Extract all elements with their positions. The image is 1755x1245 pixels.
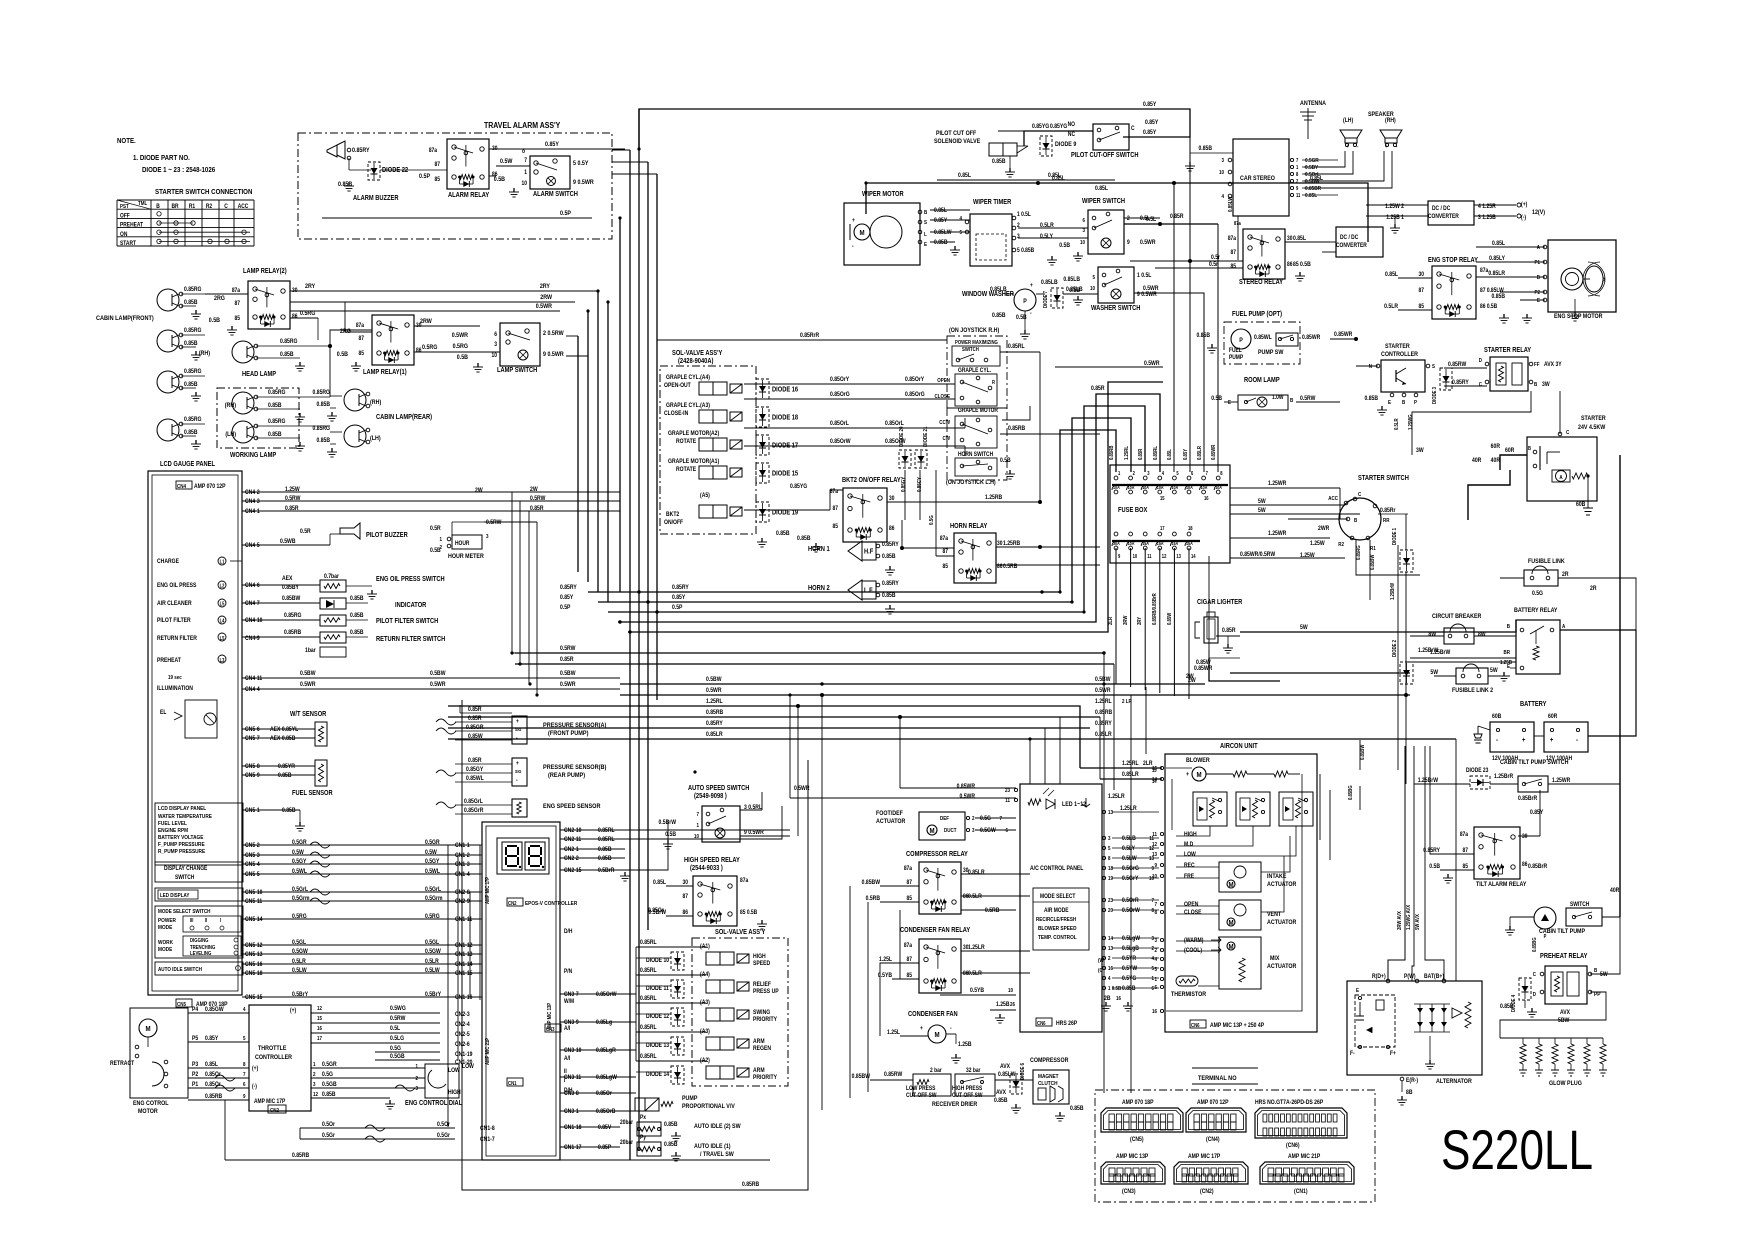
svg-text:0.85WR: 0.85WR bbox=[1334, 332, 1352, 339]
svg-text:DISPLAY CHANGE: DISPLAY CHANGE bbox=[164, 866, 208, 873]
svg-text:COMPRESSOR RELAY: COMPRESSOR RELAY bbox=[906, 851, 969, 859]
svg-text:85: 85 bbox=[1463, 864, 1468, 871]
cn6 hrs label bbox=[1036, 1018, 1052, 1026]
svg-text:2LR: 2LR bbox=[1143, 761, 1153, 768]
svg-text:STEREO RELAY: STEREO RELAY bbox=[1239, 279, 1284, 287]
diode 18 bbox=[756, 407, 769, 427]
cabin lamp rear rh bbox=[344, 389, 366, 411]
mode select switch bbox=[155, 906, 243, 958]
eng control dial bbox=[425, 1064, 459, 1098]
mode select box bbox=[1033, 888, 1089, 950]
svg-text:P2: P2 bbox=[1534, 290, 1540, 297]
svg-text:0.5B: 0.5B bbox=[1429, 864, 1440, 871]
svg-text:0.85B: 0.85B bbox=[994, 1098, 1008, 1105]
connector CN4 label bbox=[176, 481, 192, 489]
svg-text:(+): (+) bbox=[290, 1008, 296, 1015]
svg-text:0.5Gr: 0.5Gr bbox=[437, 1133, 451, 1140]
washer 0.85LB wire bbox=[1036, 293, 1045, 295]
svg-text:M.D: M.D bbox=[1184, 842, 1193, 849]
svg-text:0.5BrR: 0.5BrR bbox=[598, 868, 614, 875]
svg-text:7: 7 bbox=[999, 816, 1002, 823]
svg-text:0.85B: 0.85B bbox=[882, 593, 896, 600]
svg-text:0.85RY: 0.85RY bbox=[1452, 380, 1469, 387]
svg-text:0.5GB: 0.5GB bbox=[322, 1082, 337, 1089]
svg-text:1.25L: 1.25L bbox=[887, 1030, 900, 1037]
svg-text:CCW: CCW bbox=[939, 420, 950, 427]
svg-text:16: 16 bbox=[317, 1026, 322, 1033]
junction dots extra bbox=[637, 147, 640, 150]
svg-text:0.85RG: 0.85RG bbox=[268, 419, 286, 426]
svg-text:0.5B: 0.5B bbox=[1211, 396, 1222, 403]
svg-text:DIODE 23: DIODE 23 bbox=[1466, 768, 1488, 775]
svg-text:0.5B: 0.5B bbox=[1059, 243, 1070, 250]
svg-text:0.85RY: 0.85RY bbox=[1423, 848, 1440, 855]
vert 657 bbox=[656, 174, 658, 700]
svg-text:HRS NO.GT7A-26PD-DS 26P: HRS NO.GT7A-26PD-DS 26P bbox=[1255, 1100, 1323, 1107]
wire battery relay to battery bbox=[1588, 630, 1636, 736]
svg-text:CN1-18: CN1-18 bbox=[564, 1125, 581, 1132]
vert 648 bbox=[647, 162, 649, 930]
svg-text:(LH): (LH) bbox=[225, 432, 236, 439]
svg-text:0.85OrY: 0.85OrY bbox=[905, 377, 924, 384]
svg-text:CN5-4: CN5-4 bbox=[245, 862, 260, 869]
svg-text:87a: 87a bbox=[740, 878, 749, 885]
svg-text:15: 15 bbox=[1160, 496, 1165, 501]
fuse bottom wire 10 bbox=[1130, 548, 1132, 687]
svg-text:14: 14 bbox=[1108, 936, 1113, 943]
svg-text:0.7bar: 0.7bar bbox=[324, 574, 340, 581]
svg-text:0.5Or: 0.5Or bbox=[322, 1122, 336, 1129]
svg-text:ON/OFF: ON/OFF bbox=[664, 520, 684, 527]
aircon internal wires bbox=[1176, 826, 1210, 836]
seven segment display bbox=[497, 838, 549, 874]
svg-text:10: 10 bbox=[1219, 170, 1224, 177]
svg-text:0.5WR: 0.5WR bbox=[959, 794, 975, 801]
svg-text:ROTATE: ROTATE bbox=[676, 467, 696, 474]
glow plug resistor 3 bbox=[1554, 1038, 1556, 1044]
verticals 1.25W starter sw bbox=[1339, 488, 1341, 519]
travel alarm assembly box bbox=[298, 133, 612, 239]
svg-text:1.25BrR: 1.25BrR bbox=[1494, 774, 1513, 781]
svg-text:A/I: A/I bbox=[564, 1056, 571, 1063]
svg-text:DIODE 12: DIODE 12 bbox=[646, 1014, 669, 1021]
svg-text:2: 2 bbox=[1127, 216, 1130, 223]
svg-text:0.85R: 0.85R bbox=[285, 506, 299, 513]
svg-text:0.85RG: 0.85RG bbox=[284, 613, 302, 620]
svg-text:0.85BG: 0.85BG bbox=[1532, 937, 1539, 952]
starter controller feeds bbox=[1356, 365, 1378, 367]
svg-text:ILLUMINATION: ILLUMINATION bbox=[157, 686, 193, 693]
svg-text:THERMISTOR: THERMISTOR bbox=[1171, 992, 1207, 999]
svg-text:HEAD LAMP: HEAD LAMP bbox=[242, 371, 277, 379]
svg-text:0.5WL: 0.5WL bbox=[425, 869, 440, 876]
svg-text:30: 30 bbox=[997, 541, 1002, 548]
svg-text:0.5WR: 0.5WR bbox=[794, 786, 810, 793]
wire 0.85RB graple bbox=[1000, 433, 1100, 435]
svg-text:(CN3): (CN3) bbox=[1122, 1189, 1136, 1196]
svg-text:2: 2 bbox=[972, 816, 975, 823]
wire 0.85YG pilot bbox=[1024, 131, 1093, 146]
svg-text:2RY: 2RY bbox=[540, 284, 550, 291]
svg-text:3: 3 bbox=[415, 1086, 418, 1093]
eng stop motor bottom gnd bbox=[1574, 299, 1576, 312]
svg-text:0.5G: 0.5G bbox=[929, 515, 936, 525]
svg-text:0.5RG: 0.5RG bbox=[300, 311, 316, 318]
svg-text:DIODE 18: DIODE 18 bbox=[772, 414, 799, 422]
svg-text:85: 85 bbox=[235, 316, 240, 323]
svg-text:NC: NC bbox=[1068, 132, 1075, 139]
svg-text:8: 8 bbox=[243, 1062, 246, 1069]
svg-text:0.85BY: 0.85BY bbox=[282, 585, 299, 592]
svg-text:4: 4 bbox=[1108, 976, 1111, 983]
svg-text:1.25RB: 1.25RB bbox=[1003, 541, 1020, 548]
svg-text:86: 86 bbox=[683, 910, 688, 917]
svg-text:0.85RY: 0.85RY bbox=[560, 585, 577, 592]
svg-text:0.85B: 0.85B bbox=[268, 432, 282, 439]
svg-text:P1: P1 bbox=[1534, 260, 1540, 267]
svg-text:COMPRESSOR: COMPRESSOR bbox=[1030, 1058, 1069, 1065]
svg-text:HORN 1: HORN 1 bbox=[808, 546, 830, 554]
svg-text:0.5WR: 0.5WR bbox=[300, 682, 316, 689]
svg-text:(CN5): (CN5) bbox=[1130, 1137, 1144, 1144]
svg-text:SOL-VALVE ASS'Y: SOL-VALVE ASS'Y bbox=[715, 929, 766, 937]
svg-text:ENGINE RPM: ENGINE RPM bbox=[158, 828, 189, 835]
working lamp rh bbox=[232, 392, 254, 414]
svg-text:0.5WR: 0.5WR bbox=[1095, 688, 1111, 695]
svg-text:M: M bbox=[1228, 944, 1233, 952]
svg-text:0.85L: 0.85L bbox=[1167, 449, 1174, 460]
svg-text:1.25RL: 1.25RL bbox=[1124, 446, 1131, 460]
svg-text:POWER: POWER bbox=[158, 918, 176, 925]
svg-text:9: 9 bbox=[1296, 186, 1299, 191]
svg-text:2: 2 bbox=[1154, 948, 1157, 955]
svg-text:0.85RW: 0.85RW bbox=[884, 1072, 903, 1079]
alarm buzzer bbox=[327, 141, 345, 159]
svg-text:1: 1 bbox=[415, 1064, 418, 1071]
svg-text:60R: 60R bbox=[1505, 448, 1514, 455]
0.85RB bottom wire bbox=[224, 1100, 226, 1160]
svg-text:0.85RL: 0.85RL bbox=[1008, 344, 1025, 351]
svg-text:(C: (C bbox=[1098, 968, 1103, 975]
aircon pins left bbox=[1160, 766, 1163, 769]
svg-text:WATER TEMPERATURE: WATER TEMPERATURE bbox=[158, 814, 212, 821]
svg-text:CN2: CN2 bbox=[508, 901, 517, 908]
svg-text:0.85Y: 0.85Y bbox=[205, 1036, 218, 1043]
svg-text:1: 1 bbox=[696, 823, 699, 830]
svg-text:0.85RY: 0.85RY bbox=[882, 581, 899, 588]
svg-text:5W: 5W bbox=[1258, 499, 1266, 506]
svg-text:BR: BR bbox=[1503, 650, 1510, 657]
svg-text:1.25LR: 1.25LR bbox=[1120, 806, 1137, 813]
svg-text:PREHEAT: PREHEAT bbox=[157, 658, 181, 665]
svg-text:DIODE 11: DIODE 11 bbox=[646, 986, 669, 993]
left vertical bundle from alarm bbox=[612, 149, 630, 151]
svg-text:0.5WR: 0.5WR bbox=[452, 333, 469, 340]
svg-text:LAMP RELAY(1): LAMP RELAY(1) bbox=[363, 369, 407, 377]
svg-text:R1: R1 bbox=[189, 204, 195, 211]
svg-text:CONVERTER: CONVERTER bbox=[1428, 214, 1459, 221]
svg-text:0.85RB: 0.85RB bbox=[1109, 445, 1116, 460]
svg-text:M: M bbox=[934, 1032, 939, 1040]
svg-text:FUSIBLE LINK: FUSIBLE LINK bbox=[1528, 559, 1565, 566]
svg-text:+: + bbox=[516, 761, 519, 768]
svg-text:5: 5 bbox=[1092, 275, 1095, 282]
svg-text:0.85OrW: 0.85OrW bbox=[830, 439, 851, 446]
wire 0.5WR lamp bbox=[290, 310, 560, 312]
svg-text:30: 30 bbox=[1419, 272, 1424, 279]
svg-text:PILOT FILTER SWITCH: PILOT FILTER SWITCH bbox=[376, 618, 439, 626]
svg-text:PREHEAT RELAY: PREHEAT RELAY bbox=[1540, 953, 1588, 961]
a/c panel top feed verticals bbox=[1029, 739, 1031, 784]
svg-text:0.5GL: 0.5GL bbox=[425, 940, 440, 947]
svg-text:DIODE 20: DIODE 20 bbox=[899, 426, 906, 447]
svg-text:0.85B: 0.85B bbox=[184, 341, 198, 348]
svg-text:PRIORITY: PRIORITY bbox=[753, 1017, 777, 1024]
svg-text:DIODE 3: DIODE 3 bbox=[1432, 387, 1439, 404]
svg-text:CN1: CN1 bbox=[508, 1081, 517, 1088]
svg-text:-: - bbox=[852, 244, 854, 251]
svg-text:0.5P: 0.5P bbox=[560, 211, 571, 218]
svg-text:11: 11 bbox=[1005, 798, 1010, 805]
svg-text:CN5-18: CN5-18 bbox=[245, 971, 262, 978]
svg-text:0.85L: 0.85L bbox=[1052, 176, 1065, 183]
svg-text:0.85RG: 0.85RG bbox=[313, 426, 331, 433]
svg-text:CN1-20: CN1-20 bbox=[455, 1060, 472, 1067]
cabin lamp rear lh bbox=[344, 425, 366, 447]
graple wires vertical 965 bbox=[964, 418, 966, 428]
svg-text:WIPER TIMER: WIPER TIMER bbox=[973, 199, 1012, 207]
svg-text:(2428-9040A): (2428-9040A) bbox=[678, 358, 713, 366]
wire 0.85WR from bus to ac bbox=[899, 717, 901, 788]
svg-text:SWITCH: SWITCH bbox=[1570, 902, 1589, 909]
svg-text:R1: R1 bbox=[1370, 546, 1376, 553]
svg-text:(-): (-) bbox=[252, 1084, 257, 1091]
svg-text:ANTENNA: ANTENNA bbox=[1300, 101, 1327, 108]
vert 600 2RY bbox=[597, 291, 599, 592]
svg-text:26: 26 bbox=[1010, 1002, 1015, 1009]
svg-text:1.25WG AVX: 1.25WG AVX bbox=[1406, 904, 1413, 930]
svg-text:7: 7 bbox=[1151, 898, 1154, 905]
svg-text:3: 3 bbox=[1151, 936, 1154, 943]
svg-text:HIGH: HIGH bbox=[448, 1090, 461, 1097]
svg-text:0.85YG: 0.85YG bbox=[1032, 124, 1050, 131]
svg-text:CONDENSER FAN RELAY: CONDENSER FAN RELAY bbox=[900, 927, 971, 935]
svg-text:AVX: AVX bbox=[1560, 1010, 1570, 1017]
svg-text:FUEL PUMP (OPT): FUEL PUMP (OPT) bbox=[1232, 311, 1282, 319]
svg-text:0.5G: 0.5G bbox=[390, 1046, 402, 1053]
svg-text:CLOSE: CLOSE bbox=[935, 394, 951, 401]
svg-text:AMP MIC 21P: AMP MIC 21P bbox=[1288, 1154, 1321, 1161]
svg-text:0.85B: 0.85B bbox=[1070, 1106, 1084, 1113]
svg-text:A/I: A/I bbox=[564, 1026, 571, 1033]
svg-text:0.5WR: 0.5WR bbox=[560, 682, 576, 689]
svg-text:START: START bbox=[120, 241, 137, 248]
svg-text:8B: 8B bbox=[1406, 1090, 1412, 1097]
svg-text:18: 18 bbox=[1188, 526, 1193, 531]
vert 620 0.5P bbox=[619, 218, 621, 592]
svg-text:0.85BW: 0.85BW bbox=[282, 596, 301, 603]
svg-text:0.85B: 0.85B bbox=[184, 300, 198, 307]
svg-text:4: 4 bbox=[959, 216, 962, 223]
svg-text:5 0.5Y: 5 0.5Y bbox=[573, 161, 588, 168]
svg-text:1 0.5L: 1 0.5L bbox=[1137, 273, 1152, 280]
svg-text:TRENCHING: TRENCHING bbox=[190, 945, 216, 952]
svg-text:0.85OrL: 0.85OrL bbox=[885, 421, 904, 428]
svg-text:HIGH PRESS: HIGH PRESS bbox=[952, 1086, 983, 1093]
svg-text:S220LL: S220LL bbox=[1441, 1118, 1593, 1181]
svg-text:DC / DC: DC / DC bbox=[1432, 206, 1450, 213]
svg-text:0.5G: 0.5G bbox=[1532, 591, 1544, 598]
svg-text:85: 85 bbox=[1231, 264, 1236, 271]
svg-text:0.85R: 0.85R bbox=[560, 657, 574, 664]
svg-text:F-: F- bbox=[1350, 1051, 1355, 1058]
svg-text:0.85V: 0.85V bbox=[598, 1125, 611, 1132]
svg-text:60R: 60R bbox=[1491, 444, 1500, 451]
wire bottom 0.5WR to autospeed bbox=[789, 695, 791, 798]
svg-text:2R: 2R bbox=[1562, 572, 1568, 579]
svg-text:D: D bbox=[1533, 992, 1537, 999]
svg-text:PUMP: PUMP bbox=[682, 1096, 697, 1103]
ac left pins bbox=[1014, 788, 1017, 791]
svg-text:5: 5 bbox=[959, 230, 962, 237]
svg-text:0.85Lg: 0.85Lg bbox=[596, 1020, 613, 1027]
svg-text:0.5W: 0.5W bbox=[500, 159, 513, 166]
svg-text:AUTO SPEED SWITCH: AUTO SPEED SWITCH bbox=[688, 785, 750, 793]
svg-text:OPEN-OUT: OPEN-OUT bbox=[664, 383, 691, 390]
svg-text:1.25WR: 1.25WR bbox=[1552, 778, 1570, 785]
svg-text:4: 4 bbox=[243, 1007, 246, 1014]
svg-text:1.0W: 1.0W bbox=[1272, 395, 1284, 402]
svg-text:0.85L: 0.85L bbox=[958, 173, 971, 180]
svg-text:(-): (-) bbox=[1521, 215, 1526, 222]
svg-text:0.85B: 0.85B bbox=[934, 240, 948, 247]
svg-text:ENG STOP MOTOR: ENG STOP MOTOR bbox=[1554, 314, 1603, 321]
svg-text:0.85Y: 0.85Y bbox=[1143, 130, 1156, 137]
svg-text:AIRCON UNIT: AIRCON UNIT bbox=[1220, 743, 1258, 751]
svg-text:ACTUATOR: ACTUATOR bbox=[1267, 964, 1297, 971]
svg-text:40R: 40R bbox=[1610, 888, 1619, 895]
svg-text:8: 8 bbox=[1151, 908, 1154, 915]
svg-text:1: 1 bbox=[313, 1062, 316, 1069]
fuse feeder pin8 bbox=[1217, 224, 1219, 472]
wire starter switch feeds bbox=[1356, 540, 1420, 575]
svg-text:11: 11 bbox=[1147, 554, 1152, 559]
sol valve 0.85RL vertical bbox=[635, 947, 637, 1061]
svg-text:0.85L: 0.85L bbox=[653, 880, 666, 887]
svg-text:0.5YW: 0.5YW bbox=[1122, 966, 1138, 973]
svg-text:NOTE.: NOTE. bbox=[117, 138, 136, 146]
svg-text:0.5B: 0.5B bbox=[494, 177, 506, 184]
svg-text:0.85BW: 0.85BW bbox=[862, 880, 881, 887]
svg-text:CN3-7: CN3-7 bbox=[564, 992, 579, 999]
svg-text:CN5-10: CN5-10 bbox=[245, 890, 262, 897]
svg-text:13: 13 bbox=[1176, 554, 1181, 559]
svg-text:1.25RL: 1.25RL bbox=[706, 699, 723, 706]
svg-text:0.85B: 0.85B bbox=[1122, 986, 1136, 993]
svg-text:0.5LR: 0.5LR bbox=[968, 971, 982, 978]
washer to switch bbox=[1063, 293, 1098, 295]
svg-text:2 0.5RW: 2 0.5RW bbox=[543, 331, 564, 338]
svg-text:60B: 60B bbox=[1492, 714, 1501, 721]
svg-text:DEF: DEF bbox=[940, 816, 949, 823]
svg-text:CN3-9: CN3-9 bbox=[564, 1020, 579, 1027]
svg-text:23: 23 bbox=[1108, 898, 1113, 905]
cabin lamp front 4 bbox=[157, 419, 179, 441]
ac right pin rows bbox=[1102, 836, 1105, 839]
svg-text:0.85RB: 0.85RB bbox=[292, 1153, 309, 1160]
svg-text:0.85B: 0.85B bbox=[338, 182, 353, 189]
svg-text:HORN 2: HORN 2 bbox=[808, 585, 830, 593]
svg-text:87: 87 bbox=[943, 549, 948, 556]
svg-text:2RY: 2RY bbox=[1137, 616, 1144, 625]
svg-text:5: 5 bbox=[1151, 966, 1154, 973]
vert 639 long bbox=[638, 109, 640, 1150]
svg-text:CN2-15: CN2-15 bbox=[564, 868, 581, 875]
working lamp wires bbox=[329, 346, 331, 397]
svg-text:MODE SELECT: MODE SELECT bbox=[1040, 894, 1076, 901]
svg-text:AVX: AVX bbox=[1000, 1064, 1010, 1071]
wire diode1 vert bbox=[1405, 514, 1407, 550]
svg-text:ENG COTROL: ENG COTROL bbox=[133, 1101, 169, 1108]
wire 0.5P bottom bbox=[322, 217, 592, 219]
svg-text:L5: L5 bbox=[220, 601, 225, 606]
svg-text:LAMP RELAY(2): LAMP RELAY(2) bbox=[243, 268, 287, 276]
svg-text:BATTERY VOLTAGE: BATTERY VOLTAGE bbox=[158, 835, 204, 842]
alternator stator bbox=[1452, 1008, 1462, 1018]
svg-text:0.5LB: 0.5LB bbox=[1122, 836, 1136, 843]
svg-text:-: - bbox=[1496, 737, 1498, 745]
svg-text:10: 10 bbox=[492, 353, 497, 360]
svg-text:B: B bbox=[1534, 382, 1538, 389]
svg-text:3: 3 bbox=[1082, 228, 1085, 235]
svg-text:1: 1 bbox=[439, 537, 442, 544]
svg-text:0.85Y: 0.85Y bbox=[1183, 448, 1190, 460]
svg-text:10: 10 bbox=[1133, 554, 1138, 559]
svg-text:BKT2: BKT2 bbox=[666, 512, 679, 519]
svg-text:1.25W: 1.25W bbox=[285, 487, 300, 494]
cabin lamp front 2 bbox=[157, 330, 179, 352]
svg-text:M: M bbox=[929, 828, 934, 836]
svg-text:15: 15 bbox=[317, 1016, 322, 1023]
svg-text:0.85R: 0.85R bbox=[468, 758, 482, 765]
glow plug resistor 1 bbox=[1522, 1038, 1524, 1044]
svg-text:PRIORITY: PRIORITY bbox=[753, 1075, 777, 1082]
svg-text:0.5GB: 0.5GB bbox=[390, 1054, 405, 1061]
svg-text:CIRCUIT BREAKER: CIRCUIT BREAKER bbox=[1432, 614, 1482, 621]
svg-text:REC: REC bbox=[1184, 863, 1195, 870]
svg-text:0.85LR: 0.85LR bbox=[1488, 271, 1505, 278]
svg-text:0.85B: 0.85B bbox=[598, 856, 612, 863]
twist marks CN5 mid bbox=[310, 842, 330, 848]
svg-text:2 LR: 2 LR bbox=[1122, 699, 1132, 706]
svg-text:0.85RG: 0.85RG bbox=[280, 339, 298, 346]
svg-text:(CN4): (CN4) bbox=[1206, 1137, 1220, 1144]
svg-text:(A5): (A5) bbox=[700, 493, 710, 500]
svg-text:60B: 60B bbox=[1576, 502, 1585, 509]
svg-text:3: 3 bbox=[486, 534, 489, 541]
hour meter bbox=[452, 535, 482, 549]
svg-text:CN5-1: CN5-1 bbox=[245, 808, 260, 815]
svg-text:0.85GY: 0.85GY bbox=[901, 476, 908, 492]
svg-text:EL: EL bbox=[160, 710, 167, 717]
wire 0.85Y alarm bbox=[489, 148, 625, 150]
svg-text:(FRONT PUMP): (FRONT PUMP) bbox=[548, 730, 588, 738]
bkt2 wires bbox=[830, 490, 843, 510]
alternator diodes bbox=[1417, 1008, 1423, 1013]
svg-text:CN3: CN3 bbox=[546, 1027, 555, 1034]
svg-text:0.85B: 0.85B bbox=[268, 403, 282, 410]
svg-text:0.85RB: 0.85RB bbox=[706, 710, 723, 717]
